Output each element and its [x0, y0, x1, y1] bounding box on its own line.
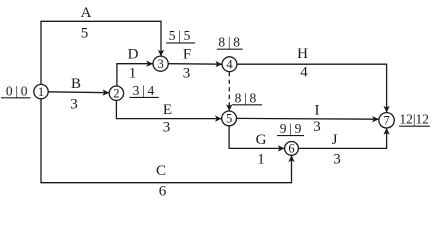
wire activity J (node6 right then up into node7): [299, 128, 387, 148]
svg-text:4: 4: [300, 65, 308, 81]
svg-text:0 | 0: 0 | 0: [6, 84, 28, 99]
node 6: [285, 142, 299, 156]
svg-text:3: 3: [163, 120, 171, 136]
svg-text:C: C: [156, 163, 166, 179]
svg-text:7: 7: [383, 114, 389, 128]
node label 12|12 (ES|LS of node 7): [399, 111, 430, 126]
svg-text:1: 1: [38, 85, 44, 99]
node 3: [153, 56, 168, 71]
node label 5|5 (ES|LS of node 3): [166, 28, 195, 43]
svg-text:6: 6: [288, 142, 294, 156]
svg-text:E: E: [163, 102, 172, 118]
svg-text:3: 3: [313, 119, 321, 135]
svg-text:3 | 4: 3 | 4: [133, 83, 155, 98]
node 4: [222, 57, 237, 72]
svg-text:G: G: [256, 132, 267, 148]
svg-text:5: 5: [81, 26, 89, 42]
svg-text:5 | 5: 5 | 5: [169, 28, 191, 43]
svg-text:3: 3: [333, 152, 341, 168]
svg-text:3: 3: [70, 97, 78, 113]
node label 9|9 (ES|LS of node 6): [277, 121, 304, 136]
wire activity B (node1 to node2): [48, 91, 109, 94]
svg-text:3: 3: [157, 57, 163, 71]
svg-text:4: 4: [226, 57, 233, 71]
node 1: [34, 84, 48, 98]
wire activity I (node5 to node7): [237, 117, 379, 120]
svg-text:6: 6: [159, 184, 167, 200]
node label 0|0 (ES|LS of node 1): [1, 84, 31, 99]
svg-text:B: B: [71, 76, 81, 92]
wire activity F (node3 to node4): [168, 63, 222, 65]
svg-text:3: 3: [183, 66, 191, 82]
svg-text:H: H: [297, 46, 308, 62]
wire activity A (node1 up, across top, down into node3): [41, 21, 161, 84]
wire activity G (node5 down then right into node6): [229, 126, 284, 148]
svg-text:9 | 9: 9 | 9: [280, 121, 302, 136]
svg-text:J: J: [332, 132, 338, 148]
node 7: [379, 113, 394, 128]
node label 8|8 (ES|LS of node 4): [217, 35, 243, 50]
node label 3|4 (ES|LS of node 2): [129, 83, 158, 98]
wire activity E (node2 down then right into node5): [116, 101, 221, 119]
node label 8|8 (ES|LS of node 5): [232, 90, 262, 105]
svg-text:2: 2: [113, 86, 119, 100]
svg-text:8 | 8: 8 | 8: [218, 35, 240, 50]
svg-text:8 | 8: 8 | 8: [235, 90, 257, 105]
wire activity C (node1 down, across bottom, up into node6): [41, 99, 292, 183]
wire activity H (node4 right then down into node7): [237, 64, 387, 112]
wire activity D (node2 up then right into node3): [117, 64, 153, 86]
svg-text:5: 5: [226, 112, 232, 126]
svg-text:1: 1: [129, 66, 137, 82]
svg-text:12|12: 12|12: [399, 111, 429, 126]
svg-text:D: D: [128, 47, 139, 63]
wire dummy activity (dashed, node4 down into node5): [228, 72, 230, 111]
svg-text:I: I: [315, 103, 320, 119]
svg-text:A: A: [81, 5, 92, 21]
svg-text:1: 1: [257, 152, 265, 168]
node 5: [222, 111, 237, 126]
svg-text:F: F: [183, 47, 191, 63]
node 2: [109, 86, 123, 100]
